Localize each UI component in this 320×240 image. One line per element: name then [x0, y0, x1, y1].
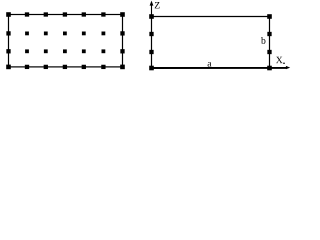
svg-text:b: b: [261, 36, 266, 47]
X axis label subscript dot: [283, 63, 284, 64]
left panel interior node dots row 2: [25, 49, 105, 53]
svg-text:Z: Z: [154, 0, 160, 11]
left panel bottom edge node markers: [6, 65, 125, 70]
left panel top edge node markers: [6, 12, 125, 17]
left panel interior node dots row 1: [25, 32, 105, 36]
svg-text:X: X: [276, 55, 283, 66]
left panel right edge node markers: [120, 31, 124, 53]
right plate left edge node markers: [149, 32, 153, 54]
X axis arrowhead: [286, 66, 290, 69]
right plate corner node markers: [149, 14, 272, 70]
right plate right edge node markers: [267, 32, 271, 54]
left panel left edge node markers: [6, 31, 10, 53]
right plate bottom edge / X axis baseline (thick): [151, 67, 287, 69]
Z axis arrowhead: [150, 1, 154, 6]
svg-text:a: a: [207, 58, 212, 69]
left mesh panel outline: [9, 15, 123, 67]
right plate outline (top, left, right edges): [152, 17, 270, 69]
Z axis line: [151, 5, 153, 17]
